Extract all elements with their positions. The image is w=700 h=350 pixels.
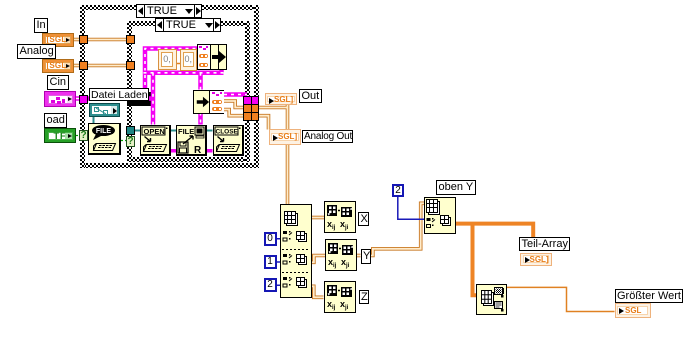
label Datei Laden (89, 88, 149, 102)
svg-text:FILE: FILE (178, 127, 194, 136)
orange tunnels right (2x2) (243, 104, 252, 113)
indicator SGL Analog Out (269, 129, 302, 145)
control cluster "Cin" (44, 91, 76, 107)
label Y (361, 249, 372, 264)
wire: Y label onward to oben Y node (371, 203, 425, 255)
blue constant 0 (264, 232, 277, 246)
wire: pink cluster loop top+left (145, 49, 197, 100)
control TF "oad" (44, 128, 76, 143)
svg-text:CLOSE: CLOSE (215, 128, 238, 135)
READ FILE node (176, 125, 207, 157)
tunnel Analog outer (79, 61, 88, 70)
wire: teal path tunnel-OPEN-READ-CLOSE (135, 130, 213, 132)
FILE dialog node (88, 123, 121, 155)
svg-text:OPEN: OPEN (144, 127, 165, 136)
control [SGL] "Analog" (42, 59, 74, 73)
wire: blue constant 2 to oben Y index (398, 197, 424, 219)
wire: unbundle row2 to tunnel row1 (224, 101, 247, 108)
wire: teal ring to FILE dialog (93, 117, 95, 123)
Datei Laden label shadow (149, 92, 153, 106)
wire: oben Y out (1D thick) to Teil-Array (456, 224, 534, 237)
wire: blue index constants 0,1,2 (277, 239, 281, 286)
svg-text:ij: ij (333, 263, 337, 269)
indicator SGL Out (265, 93, 298, 105)
unbundle node U2 (193, 90, 225, 114)
indicator SGL Teil-Array (520, 253, 552, 266)
outer case structure border (80, 5, 259, 10)
label oad (44, 113, 67, 128)
wire: tunnel row1 to Out indicator and long drop to Index Array (258, 104, 288, 207)
svg-text:ij: ij (332, 305, 336, 311)
inner case selector terminal ? (126, 136, 135, 147)
ring constant (Datei Laden selector) (89, 103, 120, 117)
CLOSE node (213, 125, 244, 157)
blue constant 1 (264, 255, 277, 269)
wire: boolean FILE dialog to inner selector (121, 140, 126, 142)
label Teil-Array (519, 237, 570, 252)
magenta tunnels right (inner+outer) (243, 96, 252, 105)
bundle node U1 (197, 44, 227, 70)
transpose node 2 (325, 239, 357, 271)
label Größter Wert (615, 289, 684, 304)
wire: index array out3 to transpose3 (312, 286, 324, 297)
label Out (299, 89, 322, 104)
label Z (359, 290, 370, 304)
wire: max out (scalar) to Groesster Wert (507, 287, 615, 311)
wire: Cin cluster to structures (pink dashed, runs under label) (76, 96, 153, 101)
wire: unbundle row3 to tunnel row2 (224, 110, 247, 116)
label Cin (47, 75, 69, 90)
tunnel In inner (126, 35, 135, 44)
svg-text:ji: ji (344, 305, 349, 311)
label In (34, 18, 48, 33)
wire: transpose2 to Y label (357, 254, 361, 258)
outer case selector TRUE (136, 4, 202, 18)
wire: pink bundle output bottom rail (143, 69, 224, 125)
svg-text:FILE: FILE (96, 128, 111, 135)
svg-text:R: R (194, 145, 202, 154)
inner case structure border (127, 21, 250, 26)
index array node (oben Y) (424, 197, 456, 234)
outer case selector terminal ? (79, 130, 88, 141)
label oben Y (436, 180, 476, 195)
index array node (3D, expanded) (280, 204, 312, 298)
label Analog (17, 44, 56, 59)
svg-text:ji: ji (345, 263, 350, 269)
wire: const1 to bundle stub (176, 63, 180, 65)
wire: boolean TF to selector (76, 135, 79, 137)
tunnel Analog inner (126, 61, 135, 70)
wire: In control to tunnels (2D SGL array) (74, 38, 131, 42)
indicator SGL Größter Wert (615, 303, 651, 319)
wire: tunnel row2 to Analog Out indicator (258, 116, 269, 130)
numeric constant 0 (second) (180, 49, 198, 71)
inner case selector TRUE (155, 18, 221, 32)
blue constant 2 (264, 278, 277, 292)
transpose node 3 (324, 281, 356, 313)
svg-text:ji: ji (344, 225, 349, 231)
control [SGL] "In" (42, 33, 74, 47)
OPEN node (140, 125, 171, 157)
wire: index array out1 to transpose1 (312, 216, 325, 220)
wire: unbundle cluster out to magenta tunnel (224, 92, 247, 97)
wire: index array out2 to transpose2 (312, 256, 326, 263)
blue constant 2 (oben) (392, 184, 404, 198)
teal tunnel (path) (126, 126, 135, 135)
tunnel In outer (79, 35, 88, 44)
wire: magenta between file nodes (171, 149, 213, 153)
wire: Analog control to tunnels (74, 64, 131, 68)
svg-text:ij: ij (332, 225, 336, 231)
transpose node 1 (324, 201, 356, 233)
array max min node (476, 284, 508, 316)
label X (358, 212, 369, 226)
label Analog Out (302, 130, 353, 144)
tunnel Cin magenta (79, 95, 88, 104)
numeric constant 0 (first) (158, 49, 177, 71)
